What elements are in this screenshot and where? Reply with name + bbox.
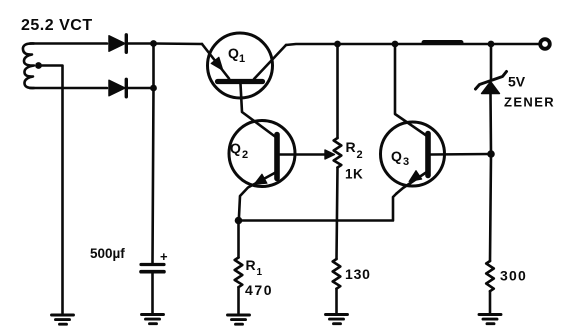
wire: output rail (top) bbox=[286, 44, 539, 45]
transistor Q1 (pass transistor) bbox=[202, 33, 286, 98]
C1 bottom lead bbox=[151, 274, 154, 313]
diode D1 (top rectifier) bbox=[109, 35, 152, 53]
C1 top plate bbox=[141, 263, 164, 266]
Q3 base lead to zener node bbox=[431, 153, 491, 156]
svg-text:Q: Q bbox=[228, 45, 239, 61]
wire: center tap to ground drop bbox=[39, 66, 63, 314]
wire: rail down to Q3 collector bbox=[395, 44, 427, 136]
wire: coil top to diode D1 bbox=[30, 42, 107, 45]
svg-text:500µf: 500µf bbox=[90, 246, 125, 261]
svg-text:3: 3 bbox=[403, 156, 409, 168]
zener diode CR3 5V bbox=[476, 44, 507, 154]
transistor Q2 (error amplifier) bbox=[229, 121, 326, 221]
svg-text:2: 2 bbox=[357, 149, 363, 161]
zener anode triangle bbox=[482, 82, 500, 94]
wire: 300 bottom lead bbox=[489, 291, 492, 312]
resistor 130 bbox=[333, 259, 341, 289]
wire: emitter bus Q2/Q3 bbox=[239, 194, 397, 221]
resistor R2 (1K pot) bbox=[334, 138, 342, 168]
resistor R1 470 bbox=[235, 258, 243, 288]
zener cathode bar with hooks bbox=[476, 72, 507, 90]
svg-text:5V: 5V bbox=[508, 74, 526, 90]
Q2 emitter lead with arrow bbox=[239, 173, 276, 221]
svg-text:ZENER: ZENER bbox=[504, 95, 555, 110]
wire: 130 bottom lead bbox=[335, 289, 338, 313]
Q3 base bar (vertical) bbox=[425, 134, 431, 176]
node: rail junction to R2 bbox=[334, 41, 341, 48]
wire: R2 bottom down to resistor 130 (crosses output wire) bbox=[337, 168, 338, 260]
C1 bottom plate bbox=[141, 270, 164, 274]
transistor Q3 (reference amplifier) bbox=[381, 122, 492, 194]
wire: rectifier bus down to filter capacitor bbox=[153, 44, 154, 263]
svg-text:1K: 1K bbox=[345, 167, 363, 182]
svg-text:470: 470 bbox=[245, 282, 273, 298]
wire: R1 bottom lead bbox=[237, 287, 240, 313]
svg-text:2: 2 bbox=[242, 149, 248, 161]
diode D2 (bottom rectifier) bbox=[109, 79, 152, 97]
wire: rectifier output to Q1 emitter bbox=[154, 42, 203, 45]
ground: center tap bbox=[52, 315, 74, 324]
node: rail junction to Q3 collector bbox=[392, 41, 399, 48]
svg-text:Q: Q bbox=[391, 148, 402, 164]
svg-text:+: + bbox=[160, 249, 168, 264]
zener cathode lead bbox=[490, 44, 493, 80]
Q3 emitter lead with arrow bbox=[397, 172, 428, 194]
wire: zener node down to resistor 300 bbox=[490, 154, 491, 261]
node: rectifier output junction (bottom diode) bbox=[150, 85, 157, 92]
zener anode lead bbox=[489, 94, 492, 155]
svg-text:25.2 VCT: 25.2 VCT bbox=[21, 17, 93, 34]
Q1 base bar bbox=[218, 79, 263, 84]
node: Q2 emitter / R1 junction bbox=[235, 217, 243, 225]
wire: doubled thick rail segment bbox=[424, 40, 461, 45]
ground: 300 bbox=[479, 315, 501, 324]
node: rectifier output junction (top) bbox=[150, 40, 157, 47]
Q2 base bar (vertical) bbox=[274, 135, 280, 179]
potentiometer wiper arrow into R2 bbox=[325, 150, 335, 159]
svg-text:300: 300 bbox=[500, 268, 527, 284]
wire: rail down to R2 bbox=[336, 44, 339, 138]
wire: R1 top lead bbox=[237, 221, 240, 258]
capacitor C1 500uf bbox=[141, 265, 164, 313]
output terminal bbox=[540, 39, 550, 49]
wire: Q1 base down to Q2 collector bbox=[241, 84, 276, 137]
svg-text:Q: Q bbox=[230, 140, 241, 156]
wire: coil bottom to diode D2 bbox=[30, 87, 107, 90]
Q1 collector lead bbox=[254, 45, 286, 79]
svg-text:R: R bbox=[346, 139, 356, 155]
ground: R1 bbox=[228, 315, 250, 324]
svg-text:1: 1 bbox=[257, 267, 263, 278]
Q2 base lead to R2 wiper bbox=[280, 153, 326, 156]
resistor 300 bbox=[486, 261, 494, 291]
transformer secondary winding T1 bbox=[23, 43, 34, 88]
ground: 130 bbox=[326, 315, 348, 324]
svg-text:130: 130 bbox=[345, 266, 371, 282]
ground: capacitor bbox=[142, 315, 164, 324]
node: rail junction to zener bbox=[488, 41, 495, 48]
node: center tap dot bbox=[35, 62, 42, 69]
svg-text:1: 1 bbox=[239, 53, 245, 65]
node: zener / Q3 base / 300 junction bbox=[487, 150, 495, 158]
Q1 emitter lead with arrow bbox=[202, 44, 229, 79]
svg-text:R: R bbox=[246, 257, 256, 273]
